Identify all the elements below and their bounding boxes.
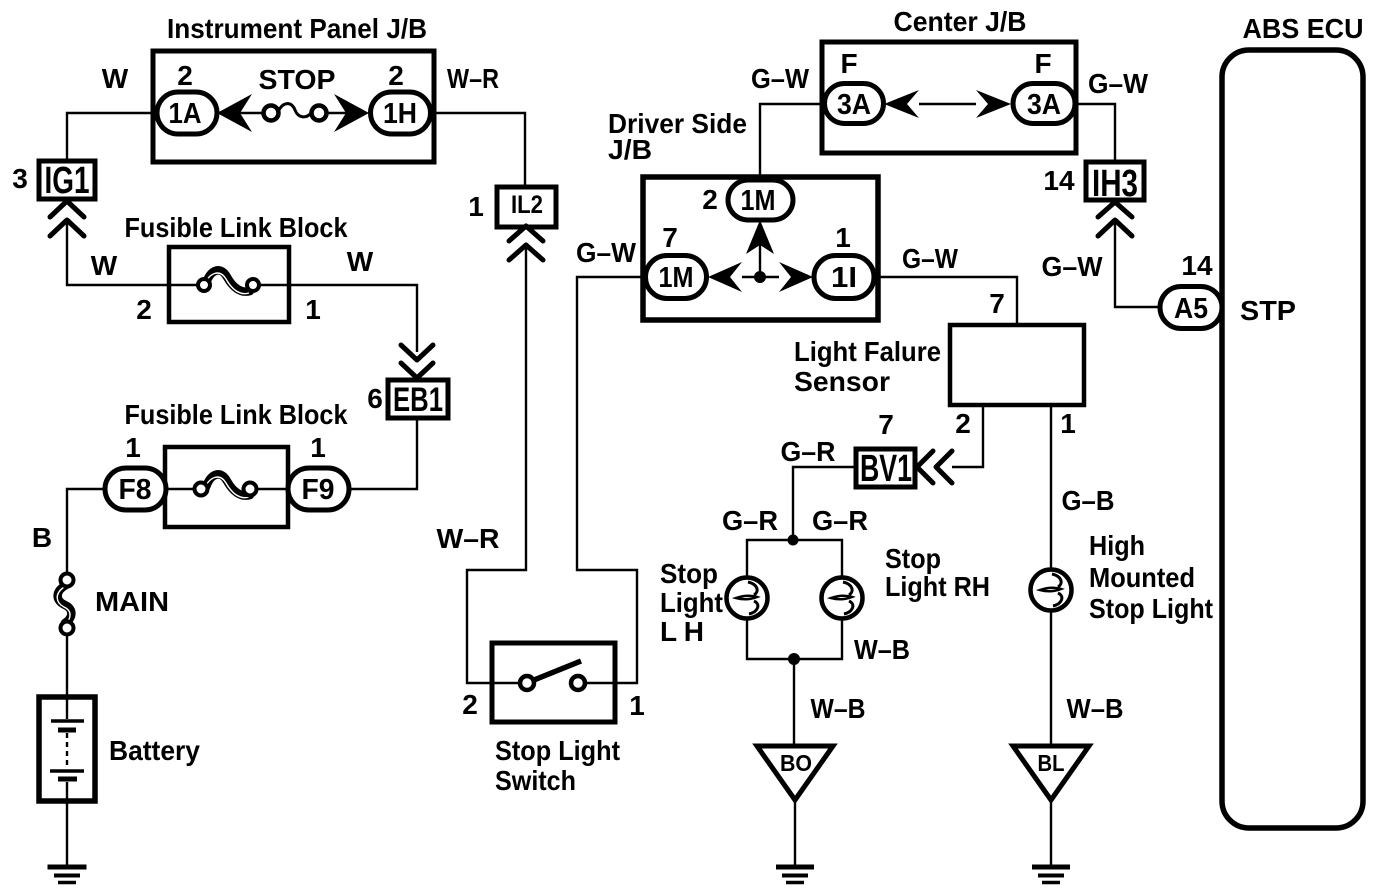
svg-text:Switch: Switch — [495, 765, 576, 796]
svg-text:G–W: G–W — [1042, 251, 1104, 282]
fuse MAIN symbol — [57, 574, 73, 635]
svg-text:W: W — [91, 250, 118, 281]
connector box IH3 — [1086, 162, 1144, 200]
svg-text:J/B: J/B — [608, 134, 652, 165]
svg-text:Center J/B: Center J/B — [894, 6, 1027, 37]
svg-text:G–R: G–R — [722, 505, 778, 536]
svg-text:7: 7 — [878, 409, 894, 440]
center J/B arrows — [884, 90, 1011, 118]
svg-text:Stop Light: Stop Light — [495, 735, 620, 766]
svg-text:1I: 1I — [831, 262, 857, 294]
connector oval 1M left — [646, 256, 707, 299]
svg-text:1M: 1M — [659, 262, 694, 294]
svg-text:BL: BL — [1038, 750, 1065, 776]
svg-text:Light Falure: Light Falure — [794, 336, 941, 367]
chevrons IG1 — [50, 201, 84, 236]
switch lever — [534, 661, 581, 680]
svg-text:1A: 1A — [169, 98, 202, 130]
svg-text:2: 2 — [702, 184, 718, 215]
connector oval 3A right — [1013, 84, 1075, 124]
svg-text:Light: Light — [660, 587, 723, 618]
fuse STOP symbol with arrows — [217, 94, 369, 132]
connector oval 1A — [157, 92, 217, 134]
svg-text:G–B: G–B — [1062, 485, 1115, 516]
svg-text:BV1: BV1 — [860, 448, 912, 490]
svg-text:W–R: W–R — [447, 63, 499, 94]
ground triangle BO — [757, 746, 833, 800]
svg-text:1H: 1H — [383, 98, 417, 130]
connector box IL2 — [497, 187, 556, 227]
stop light switch box — [492, 643, 615, 722]
svg-text:W: W — [102, 63, 129, 94]
connector box BV1 — [856, 449, 915, 487]
wire W-R from connector 1H to IL2 — [431, 113, 525, 187]
svg-text:ABS ECU: ABS ECU — [1243, 13, 1364, 44]
wire G-W from driver side J/B 1I to light failure sensor pin 7 — [878, 277, 1017, 325]
svg-text:Stop: Stop — [660, 558, 718, 589]
wire W from battery node to connector 1A — [67, 113, 155, 161]
wire W-B junction to BO triangle — [793, 659, 795, 746]
svg-text:3A: 3A — [837, 89, 871, 121]
connector oval F8 — [105, 468, 166, 510]
svg-text:6: 6 — [367, 383, 383, 414]
svg-text:3A: 3A — [1027, 89, 1061, 121]
svg-text:G–W: G–W — [1088, 68, 1149, 99]
svg-text:G–W: G–W — [576, 237, 637, 268]
connector oval 1M top — [728, 180, 793, 220]
svg-text:IL2: IL2 — [511, 191, 543, 219]
ABS ECU box — [1222, 50, 1363, 828]
connector box IG1 — [39, 161, 95, 199]
bulb stop light RH — [822, 578, 863, 619]
wire from EB1 to F9 — [350, 418, 417, 489]
ground BL — [1032, 867, 1070, 883]
wire W from AM1 block to EB1 chevrons — [289, 285, 417, 352]
ground BO — [776, 867, 814, 883]
wire battery to ground — [66, 799, 68, 867]
wire BL triangle to ground — [1050, 799, 1052, 867]
fusible link block AM1 box — [169, 247, 289, 322]
bulb stop light LH — [727, 578, 768, 619]
svg-text:G–W: G–W — [902, 243, 959, 274]
wire BO triangle to ground — [794, 799, 796, 867]
svg-text:High: High — [1089, 530, 1145, 561]
driver side J/B arrows and junction — [708, 220, 813, 292]
chevrons IL2 — [509, 226, 543, 260]
svg-text:Stop: Stop — [885, 543, 941, 574]
light failure sensor box — [950, 325, 1084, 405]
wire W from IG1 chevrons to AM1 block — [67, 223, 169, 285]
svg-text:W–B: W–B — [811, 693, 866, 724]
svg-text:2: 2 — [388, 60, 404, 91]
svg-text:W–R: W–R — [437, 523, 500, 554]
connector oval F9 — [288, 468, 349, 510]
svg-text:2: 2 — [136, 294, 152, 325]
fuse AM1 symbol — [169, 270, 289, 293]
svg-text:G–R: G–R — [781, 436, 836, 467]
ground triangle BL — [1013, 746, 1089, 800]
svg-text:W–B: W–B — [854, 634, 910, 665]
svg-text:1: 1 — [1060, 408, 1076, 439]
bulb high mounted stop light — [1031, 570, 1072, 611]
svg-text:1: 1 — [629, 690, 645, 721]
svg-text:2: 2 — [462, 689, 478, 720]
svg-text:IG1: IG1 — [45, 160, 90, 202]
connector oval A5 — [1160, 287, 1222, 329]
wire G-W from center J/B 3A right to IH3 — [1076, 104, 1115, 162]
svg-text:IH3: IH3 — [1092, 163, 1138, 205]
node junction W-B — [788, 653, 800, 665]
wire stop light parallel rails — [747, 540, 842, 659]
wire G-R from BV1 to stop light junction — [793, 467, 856, 540]
svg-text:Fusible Link Block: Fusible Link Block — [125, 212, 348, 243]
svg-text:F9: F9 — [302, 474, 335, 506]
wire W-R from IL2 chevrons down to stop light switch pin 2 — [467, 247, 526, 683]
connector oval 1I — [814, 256, 874, 299]
battery box — [39, 697, 95, 801]
wire G-B from sensor pin 1 to high mounted stop light — [1050, 405, 1052, 570]
svg-text:1: 1 — [835, 222, 851, 253]
svg-text:2: 2 — [955, 408, 971, 439]
battery cell symbol — [50, 699, 84, 799]
chevrons IH3 — [1098, 202, 1132, 236]
wire W-B high mounted stop light to BL triangle — [1050, 611, 1052, 746]
ground battery — [48, 867, 87, 883]
svg-text:Light RH: Light RH — [885, 571, 990, 602]
driver side J/B box — [643, 177, 878, 320]
svg-text:G–W: G–W — [751, 63, 810, 94]
svg-text:1: 1 — [125, 432, 141, 463]
node junction G-R — [788, 535, 799, 546]
svg-text:7: 7 — [662, 222, 678, 253]
connector box EB1 — [388, 380, 448, 418]
chevrons BV1 — [917, 451, 952, 483]
svg-text:1: 1 — [468, 191, 484, 222]
svg-text:STOP: STOP — [259, 64, 336, 95]
instrument panel J/B box — [153, 51, 434, 162]
svg-text:F: F — [840, 48, 857, 79]
center J/B box — [822, 42, 1076, 153]
wire G-W from stop light switch pin 1 up to driver side J/B 1M — [577, 277, 643, 683]
svg-text:Sensor: Sensor — [794, 366, 890, 397]
wire inside switch box — [492, 682, 613, 684]
svg-text:Fusible Link Block: Fusible Link Block — [125, 399, 348, 430]
fusible link block ALT box — [165, 447, 288, 527]
svg-text:2: 2 — [177, 60, 193, 91]
wire G-W from IH3 chevrons to A5 — [1115, 222, 1160, 307]
svg-text:14: 14 — [1181, 250, 1213, 281]
svg-text:Mounted: Mounted — [1089, 562, 1195, 593]
svg-text:BO: BO — [780, 750, 812, 776]
wire from sensor pin 2 to BV1 chevrons — [952, 405, 983, 467]
svg-text:Stop Light: Stop Light — [1089, 593, 1213, 624]
switch contacts — [520, 676, 585, 690]
svg-text:7: 7 — [989, 288, 1005, 319]
wire B from F8 to MAIN fuse — [67, 489, 105, 573]
svg-text:1: 1 — [310, 432, 326, 463]
svg-text:STP: STP — [1240, 295, 1296, 326]
svg-text:EB1: EB1 — [393, 381, 443, 419]
svg-text:3: 3 — [12, 163, 28, 194]
wire G-W from center J/B 3A left down to driver side J/B 1M top — [760, 104, 822, 180]
svg-text:1: 1 — [305, 294, 321, 325]
fuse ALT symbol — [166, 474, 288, 497]
svg-text:W: W — [347, 246, 374, 277]
svg-text:W–B: W–B — [1067, 693, 1124, 724]
svg-text:F8: F8 — [119, 474, 152, 506]
svg-text:B: B — [32, 522, 52, 553]
connector oval 1H — [371, 92, 431, 134]
svg-text:Instrument Panel J/B: Instrument Panel J/B — [167, 13, 427, 44]
svg-text:MAIN: MAIN — [95, 586, 169, 617]
svg-text:G–R: G–R — [812, 505, 868, 536]
connector oval 3A left — [825, 84, 884, 124]
svg-text:14: 14 — [1043, 165, 1075, 196]
svg-text:A5: A5 — [1174, 293, 1208, 325]
svg-text:F: F — [1034, 48, 1051, 79]
svg-text:1M: 1M — [741, 185, 776, 217]
wire MAIN fuse to battery — [66, 634, 68, 699]
svg-text:Battery: Battery — [109, 735, 200, 766]
chevrons EB1 — [401, 345, 433, 378]
